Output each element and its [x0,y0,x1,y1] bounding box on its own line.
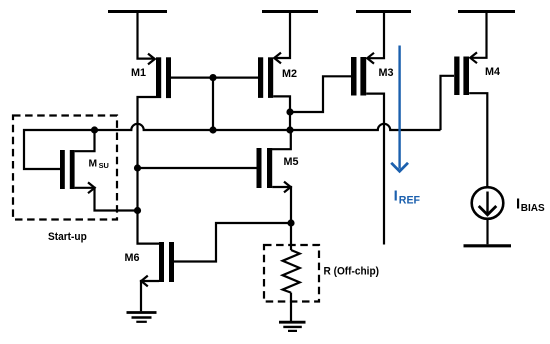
wire: VDD rail to M3 source [367,10,384,58]
M3 source arrow (PMOS) [367,53,374,64]
power rail VDD (above M3) [356,10,411,13]
wire: M6 source to ground [141,281,159,311]
wire: M1/M2 gate bus [171,76,258,78]
M4 source arrow (PMOS) [470,52,477,63]
wire: R node to M6 gate [174,223,291,262]
wire: M4 gate to bias bus right end [441,76,455,130]
wire: resistor to ground [290,293,292,321]
I_BIAS arrow inside circle [479,192,497,215]
transistor M5 gate bar [257,148,262,188]
wire: M5 gate to tap on M1 drain line [138,167,257,169]
wire: M4 drain down to I_BIAS source [469,93,487,187]
wire: M5 source down to R node [272,187,291,223]
junction: gate bus riser tap [209,74,216,81]
wire: VDD rail to M4 source [470,10,487,58]
wire: M2 drain down to node [273,96,290,112]
M5 source arrow (NMOS) [284,182,291,193]
transistor M1 channel bar [156,57,161,98]
M1 source arrow (PMOS) [148,54,155,65]
transistor M3 gate bar [351,57,357,96]
M6 source arrow (NMOS) [141,276,148,287]
start-up dashed box [13,116,117,220]
junction: M2 drain / M3 gate node [286,108,293,115]
ground (R) [279,322,306,331]
wire: M_SU drain up to bias bus [75,130,95,151]
transistor M2 gate bar [258,57,263,98]
transistor M_SU channel bar [70,150,75,189]
svg-text:M: M [89,158,98,169]
wire: M_SU gate tie to bias bus [24,130,95,169]
svg-text:BIAS: BIAS [521,203,545,214]
ground (M6) [127,313,157,322]
transistor M4 channel bar [463,57,469,96]
junction: M5 source / M6 gate / R node [287,219,294,226]
R dashed box [264,245,319,302]
ground (I_BIAS, single bar) [464,244,512,247]
transistor M6 gate bar [169,242,174,282]
wire: VDD rail to M1 source [138,10,156,59]
svg-text:M4: M4 [485,66,500,78]
transistor M6 channel bar [159,242,164,282]
wire: R node down to resistor [290,223,292,250]
wire: down to M6 drain [138,211,160,244]
svg-text:REF: REF [399,194,421,206]
wire: node to M3 gate [290,76,351,112]
wire: gate bus riser down to bias bus [212,78,214,130]
M2 source arrow (PMOS) [274,53,281,64]
wire: M_SU source to tap on M1 drain line [75,188,138,211]
wire: M3 drain / I_REF output line [366,94,384,245]
svg-text:I: I [516,196,520,213]
svg-text:I: I [394,188,398,205]
svg-text:M1: M1 [131,67,146,79]
wire: VDD rail to M2 source [274,10,290,58]
transistor M1 gate bar [166,57,171,98]
svg-text:M6: M6 [125,252,140,264]
current source I_BIAS circle [472,187,504,219]
transistor M4 gate bar [454,57,459,96]
transistor M2 channel bar [268,57,273,98]
wire: node down to bias bus [289,112,291,130]
transistor M5 channel bar [267,148,272,188]
svg-text:M3: M3 [379,67,394,79]
svg-text:R (Off-chip): R (Off-chip) [324,265,380,277]
wire: I_BIAS to ground [486,219,488,245]
junction: M_SU source tap [134,207,141,214]
wire: M5 gate tap down to M_SU source tap [136,168,138,211]
transistor M3 channel bar [360,57,366,96]
wire: M1 drain down to M5 gate tap [138,97,157,168]
power rail VDD (above M1) [108,10,167,13]
junction: node on bias bus [286,126,293,133]
M_SU source arrow (NMOS) [88,182,95,193]
wire: bias bus (hops over M1-drain line and I_REF line) [95,124,441,130]
junction: riser on bias bus [209,126,216,133]
I_REF annotation arrow (blue) [391,46,408,172]
wire: M5 drain up to bias bus [272,130,291,149]
transistor M_SU gate bar [60,150,65,189]
svg-text:SU: SU [99,161,109,170]
svg-text:M5: M5 [284,156,299,168]
svg-text:M2: M2 [282,68,297,80]
junction: M_SU drain/gate on bias bus [91,126,98,133]
power rail VDD (above M2) [262,10,318,13]
svg-text:Start-up: Start-up [48,231,87,243]
power rail VDD (above M4) [458,10,515,13]
resistor R (zigzag, off-chip) [283,250,300,293]
junction: M5 gate tap on M1 drain line [134,164,141,171]
